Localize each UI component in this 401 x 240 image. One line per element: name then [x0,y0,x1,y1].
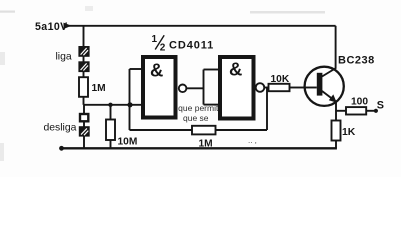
svg-text:100: 100 [351,96,368,107]
svg-text:liga: liga [56,52,72,63]
svg-text:S: S [377,99,384,111]
svg-text:2: 2 [160,42,166,53]
svg-text:1K: 1K [342,127,356,138]
svg-text:&: & [150,59,163,80]
svg-text:1M: 1M [92,83,106,94]
svg-text:&: & [229,58,242,79]
svg-text:5a10V: 5a10V [35,21,68,33]
svg-text:.. ,: .. , [248,136,257,145]
svg-text:BC238: BC238 [338,54,375,66]
svg-text:1M: 1M [199,138,213,149]
svg-text:desliga: desliga [44,123,77,134]
svg-text:10K: 10K [271,74,290,85]
svg-text:10M: 10M [118,136,138,147]
svg-text:CD4011: CD4011 [169,39,214,51]
svg-text:que se: que se [183,113,209,123]
svg-text:1: 1 [152,34,158,45]
